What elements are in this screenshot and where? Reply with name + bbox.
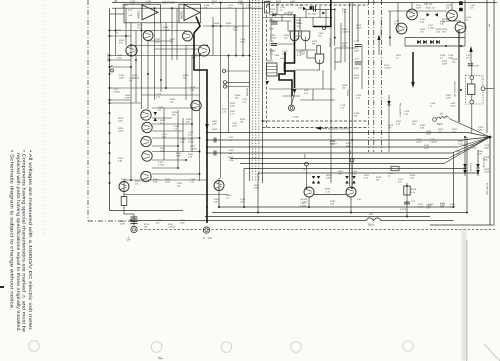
svg-text:10/16: 10/16 [450, 106, 456, 108]
svg-text:220P: 220P [354, 68, 360, 70]
wire J1 [227, 81, 250, 83]
wire vert x243 [242, 3, 244, 56]
node lb24 [242, 55, 244, 57]
transistor Q102 base [128, 47, 135, 49]
wire vert x236 [235, 8, 237, 55]
wire horiz y55.5 [110, 55, 250, 57]
transistor Q201 base [306, 189, 312, 191]
terminal J2 [223, 85, 226, 88]
svg-text:100P: 100P [120, 224, 126, 226]
node lv1 [109, 35, 111, 37]
wire v478 [477, 150, 479, 176]
transistor Q204 [396, 23, 407, 34]
svg-text:0.0033: 0.0033 [430, 142, 437, 144]
node lb5 [220, 2, 222, 4]
svg-text:R112: R112 [304, 90, 310, 92]
gate G2 [301, 31, 310, 41]
transistor Q110 [141, 171, 151, 181]
connector P2 outer [203, 227, 209, 233]
bottom centre mark [158, 357, 163, 360]
svg-text:CH: CH [208, 237, 212, 240]
diode D106a [154, 112, 158, 115]
diode DS1a [312, 176, 315, 179]
svg-text:1M: 1M [158, 110, 161, 112]
svg-text:C102: C102 [228, 137, 234, 139]
transistor Q105 leads [192, 106, 199, 108]
arrow up x471 [469, 46, 472, 52]
wire servo h3 [296, 49, 315, 51]
wire horiz y36 [110, 35, 132, 37]
node j20 [257, 212, 259, 214]
bus dotted B3 [255, 0, 257, 181]
svg-text:0.0033: 0.0033 [342, 32, 349, 34]
diode D115 bar [387, 104, 391, 106]
wire vert x177 [176, 8, 178, 60]
node fan-l0 [206, 132, 208, 134]
connector P3 outer [289, 105, 295, 111]
wire servo v7 [312, 18, 314, 28]
inductor L10 [366, 218, 381, 221]
node j11 [130, 220, 132, 222]
wire dash-dot servo v2 [373, 0, 375, 152]
svg-text:R221 1.5: R221 1.5 [426, 7, 436, 9]
transistor Q206 base [457, 25, 464, 27]
svg-text:• All voltages are measured wi: • All voltages are measured with a 1000Ω… [28, 150, 33, 331]
wire bus f4 taper [452, 137, 490, 153]
wire left bottom rail [110, 210, 184, 212]
wire servo v3 [281, 15, 283, 21]
svg-text:SERVO 12V: SERVO 12V [162, 1, 176, 4]
wire vert x141.5 [141, 23, 143, 110]
transistor Q104 base [200, 47, 207, 49]
diode DS2a [317, 176, 320, 179]
transistor Q204 leads [398, 29, 405, 31]
transistor Q201 [304, 187, 314, 197]
capacitor CP2 [131, 221, 138, 223]
svg-text:220P: 220P [230, 106, 236, 108]
svg-text:to SERVO BOARD: to SERVO BOARD [328, 128, 349, 131]
svg-text:C110: C110 [354, 41, 360, 43]
wire v334 [334, 9, 336, 46]
svg-text:10/16: 10/16 [232, 126, 238, 128]
wire dash-dot boundary bottom stub [88, 220, 130, 222]
node lb18 [199, 151, 201, 153]
terminal T-bias2 [350, 158, 354, 162]
svg-text:At 1kHz-0dB: At 1kHz-0dB [486, 183, 489, 195]
wire thick x331 [313, 0, 331, 27]
capacitor C111 [355, 61, 362, 63]
capacitor C103t [313, 6, 315, 12]
wire bus f2 taper [462, 137, 490, 140]
node j4 [308, 206, 310, 208]
diode D105 bar [275, 13, 277, 17]
transistor Q202 leads [348, 193, 354, 195]
wire servo v18 [291, 96, 293, 105]
inductor L8 [437, 116, 449, 119]
wire vert x131 [130, 23, 132, 182]
node j14 [206, 221, 208, 223]
svg-text:100P: 100P [442, 64, 448, 66]
bus line B5 [262, 0, 264, 183]
svg-text:220P: 220P [354, 78, 360, 80]
scan streak line [466, 240, 468, 361]
wire hQ111 [124, 213, 134, 215]
node lb29 [135, 59, 137, 61]
node fan-l1 [206, 139, 208, 141]
wire vert x186 [185, 45, 187, 100]
arrow x413 [411, 82, 415, 88]
svg-text:220P: 220P [269, 29, 274, 31]
capacitor C105 servo [271, 43, 277, 45]
wire horiz y45.5 [131, 45, 207, 47]
node fan-l3 [206, 152, 208, 154]
terminal P101 [111, 69, 114, 72]
corner diagonal [484, 344, 500, 361]
node fan convergence [489, 136, 492, 139]
transistor Q102 [126, 45, 137, 56]
connector small L8 [433, 118, 437, 122]
wire bottom bus y207 [218, 206, 454, 208]
node j12 [262, 120, 264, 122]
svg-text:3.2V: 3.2V [128, 10, 133, 12]
wire right frame v2 [493, 0, 495, 225]
arrow to-servo [316, 126, 321, 130]
page crease line [44, 0, 46, 235]
transistor Q104 [198, 45, 209, 56]
diode D202a [427, 13, 430, 17]
svg-text:replaced with parts having spe: replaced with parts having specification… [16, 153, 21, 332]
wire vert x136 [135, 31, 137, 104]
svg-text:0.0033: 0.0033 [168, 227, 175, 229]
wire J2 [227, 86, 250, 88]
terminal R230 right [481, 87, 485, 91]
svg-text:10/16: 10/16 [118, 131, 124, 133]
svg-text:• Schematic diagram is subject: • Schematic diagram is subject to change… [10, 150, 15, 310]
svg-text:4.7/50: 4.7/50 [163, 30, 170, 32]
wire riser x258 [257, 173, 259, 213]
wire vert x148 [147, 41, 149, 109]
capacitor C102 on fan [213, 138, 215, 143]
diode D20 [476, 164, 480, 168]
wire bus f5 [230, 158, 448, 160]
wire horiz y60 [110, 59, 132, 61]
wire servo h0 [269, 20, 291, 22]
wire thick x461 [458, 30, 460, 122]
transistor Q111 [119, 182, 129, 192]
wire horiz y138 [152, 137, 200, 139]
wire servo v12 [357, 5, 359, 41]
svg-text:10/16: 10/16 [188, 142, 194, 144]
node lb11 [147, 73, 149, 75]
transistor Q109 [142, 151, 152, 161]
node lv5 [109, 73, 111, 75]
wire v465 [464, 137, 466, 176]
transistor Q106 base [142, 112, 149, 114]
transistor Q102 leads [128, 51, 135, 53]
svg-text:100P: 100P [416, 8, 422, 10]
svg-text:(+B): (+B) [109, 66, 113, 68]
transistor Q109 base [143, 153, 150, 155]
node lb22 [130, 179, 132, 181]
wire vQ201 up [306, 166, 308, 188]
transistor Q203 base [408, 12, 415, 14]
node j2 [389, 37, 391, 39]
node lb9 [249, 55, 251, 57]
wire vQ111 [123, 180, 125, 196]
wire x379 [378, 40, 380, 55]
wire dash-dot servo v1 [368, 0, 370, 152]
svg-text:220P: 220P [418, 207, 424, 209]
node lb26 [212, 25, 214, 27]
svg-text:4-7(3): 4-7(3) [293, 117, 299, 119]
wire v306 [305, 9, 307, 17]
wire bus f1 taper [468, 133, 490, 138]
wire servo diode row [269, 14, 296, 16]
connector P2 inner [205, 229, 208, 232]
transistor Q112 [214, 181, 224, 191]
node lb12 [160, 79, 162, 81]
wire bus f2 [207, 139, 462, 141]
svg-text:1M: 1M [240, 122, 243, 124]
wire bottom bus y212 [212, 212, 467, 214]
diode D106b [154, 118, 158, 121]
node lv4 [109, 66, 111, 68]
node lb6 [199, 55, 201, 57]
node h9 [334, 9, 336, 11]
node j7 [406, 216, 408, 218]
wire h21 right [446, 20, 461, 22]
diode D105 servo [273, 13, 276, 17]
svg-text:1.6V: 1.6V [128, 15, 133, 17]
wire vQ202 up [351, 162, 353, 188]
wire vert x126 [125, 8, 127, 45]
node lv11 [109, 132, 111, 134]
diode D204 [436, 40, 439, 44]
wire horiz y160 [152, 159, 186, 161]
diode D106 servo [265, 81, 269, 85]
wire servo v8 [319, 6, 321, 18]
wire riser x244 [243, 169, 245, 208]
connector P1 outer [131, 226, 137, 232]
wire servo to P3 [292, 94, 295, 106]
node j6 [218, 206, 220, 208]
node j15 [351, 139, 353, 141]
wire J3 [226, 70, 250, 72]
wire bus f4 [207, 152, 452, 154]
diode servo thick [293, 89, 297, 94]
diode D201 [417, 40, 420, 44]
resistor R230 [468, 84, 475, 95]
wire servo h5 [335, 61, 341, 63]
svg-text:R: R [203, 237, 205, 240]
diode D203 bar [433, 40, 435, 44]
wire R230 stem [471, 62, 473, 84]
transistor Q110 leads [142, 177, 149, 179]
svg-text:CH: CH [127, 239, 131, 242]
node lb16 [177, 145, 179, 147]
transistor Q206 leads [457, 28, 464, 30]
node lb3 [154, 7, 156, 9]
wire vert x228.5 [228, 56, 230, 133]
transistor Q103 base [184, 33, 190, 35]
node lb19 [185, 159, 187, 161]
wire top rail [112, 2, 497, 4]
capacitor C110 [355, 43, 362, 45]
wire y46 right [405, 45, 465, 47]
transistor Q202 [346, 187, 356, 197]
wire servo v20 [306, 50, 308, 58]
wire bottom bus y220 left [131, 220, 366, 222]
svg-text:0.0033: 0.0033 [132, 78, 139, 80]
svg-text:150B: 150B [280, 58, 285, 60]
transistor Q206 [455, 22, 466, 33]
wire thick servo [285, 15, 295, 88]
wire servo v19 [287, 21, 289, 31]
transistor Q204 base [398, 26, 405, 28]
svg-text:C105: C105 [269, 41, 275, 43]
wire vert x199.5 [199, 55, 201, 181]
wire horiz y103 [110, 102, 142, 104]
terminal T-bias1 [305, 162, 309, 166]
node j1 [334, 37, 336, 39]
svg-text:10/16: 10/16 [416, 142, 422, 144]
switch line 3 [267, 72, 278, 74]
wire servo v14 [319, 60, 321, 71]
wire servo v2 [276, 5, 278, 15]
resistor R236 [404, 186, 410, 195]
wire horiz y67 [110, 66, 132, 68]
wire dash-dot servo v3 [381, 0, 383, 152]
wire horiz y168 [152, 167, 178, 169]
wire servo h6 [295, 69, 321, 71]
wire v389 [388, 95, 390, 152]
svg-text:10/16: 10/16 [302, 202, 308, 204]
capacitor C72 [404, 201, 410, 203]
transistor Q205 [447, 10, 458, 21]
wire servo v0 [270, 18, 272, 42]
scan streak [462, 228, 467, 361]
svg-text:50µH: 50µH [368, 225, 374, 227]
svg-text:10/16: 10/16 [484, 172, 490, 174]
node lv14 [109, 162, 111, 164]
wire horiz y108 [152, 107, 196, 109]
bus dotted B4 [258, 0, 260, 181]
diode DS4b [352, 181, 355, 184]
punch hole 2 [151, 342, 162, 353]
wire horiz y22.5 [161, 22, 179, 24]
wire servo h9 [300, 99, 335, 101]
svg-text:0.0033: 0.0033 [113, 92, 120, 94]
svg-text:4.7/50: 4.7/50 [246, 8, 253, 10]
node j9 [453, 206, 455, 208]
node lv10 [109, 122, 111, 124]
bus line B1 [249, 0, 251, 181]
wire y37 right [405, 37, 465, 39]
op-amp IC101a [142, 5, 158, 20]
svg-text:4.7/50: 4.7/50 [300, 206, 307, 208]
svg-text:D17 D18: D17 D18 [469, 163, 471, 172]
transistor Q203 [407, 9, 418, 20]
wire servo h10 [307, 57, 315, 59]
svg-text:1M: 1M [442, 22, 445, 24]
diode DS1b [312, 181, 315, 184]
node j23 [406, 185, 408, 187]
node lb7 [228, 55, 230, 57]
wire servo v13 [361, 44, 363, 89]
node lv16 [109, 182, 111, 184]
node lb23 [235, 55, 237, 57]
wire vert x172 [171, 8, 173, 60]
node lv2 [109, 55, 111, 57]
wire servo h4 [335, 47, 358, 49]
transistor Q205 base [448, 13, 455, 15]
svg-text:4.7/50: 4.7/50 [158, 165, 165, 167]
wire bus f5 taper [448, 137, 490, 159]
wire servo h7 [269, 88, 335, 90]
svg-text:4.7/50: 4.7/50 [400, 209, 407, 211]
capacitor C107 servo [272, 21, 278, 23]
node lv13 [109, 152, 111, 154]
wire vP1 [133, 214, 135, 226]
wire horiz y194.5 [124, 194, 228, 196]
wire horiz y26 [203, 25, 250, 27]
transistor Q108 leads [142, 142, 149, 144]
op-amp IC101b box [179, 4, 201, 23]
svg-text:10/16: 10/16 [356, 28, 362, 30]
wire bus f6 [240, 163, 444, 165]
node lb14 [191, 107, 193, 109]
punch hole 1 [29, 341, 40, 352]
transistor Q105 [191, 100, 201, 110]
dashed servo top [267, 4, 369, 6]
transistor Q205 leads [448, 16, 455, 18]
wire vert x183 [182, 118, 184, 152]
diode D104 blob [322, 12, 325, 15]
wire servo v17 [312, 89, 314, 100]
switch line 2 [267, 69, 278, 71]
diode DS3a [345, 176, 348, 179]
transistor Q112 leads [216, 186, 222, 188]
transistor Q108 [141, 136, 151, 146]
svg-text:B 1.5DB: B 1.5DB [308, 13, 317, 15]
svg-text:1M: 1M [388, 128, 391, 130]
wire L8 to node [449, 119, 490, 138]
svg-text:WITH DOLBY NR: WITH DOLBY NR [453, 81, 455, 97]
wire horiz y30.5 [110, 30, 187, 32]
wire horiz y151.5 [152, 151, 200, 153]
node lb28 [125, 35, 127, 37]
wire hQ pair [314, 194, 346, 196]
diode D202b [435, 13, 438, 17]
svg-text:C111: C111 [354, 59, 360, 61]
svg-text:100P: 100P [484, 148, 490, 150]
op-amp IC101b [184, 5, 200, 21]
wire horiz y146 [152, 145, 178, 147]
wire vQ202 down [350, 197, 352, 213]
transistor Q202 base [348, 189, 354, 191]
resistor Rq111 [121, 197, 127, 206]
component mark tr2 [459, 8, 462, 11]
node j19 [243, 206, 245, 208]
wire horiz y131 [152, 130, 183, 132]
wire vQ111b [123, 206, 125, 215]
op-amp IC101a box [124, 4, 161, 23]
wire servo v10 [340, 23, 342, 62]
wire v390 [389, 11, 391, 46]
dashed servo left [266, 5, 268, 128]
transistor Q112 base [216, 183, 222, 185]
node j17 [460, 45, 462, 47]
